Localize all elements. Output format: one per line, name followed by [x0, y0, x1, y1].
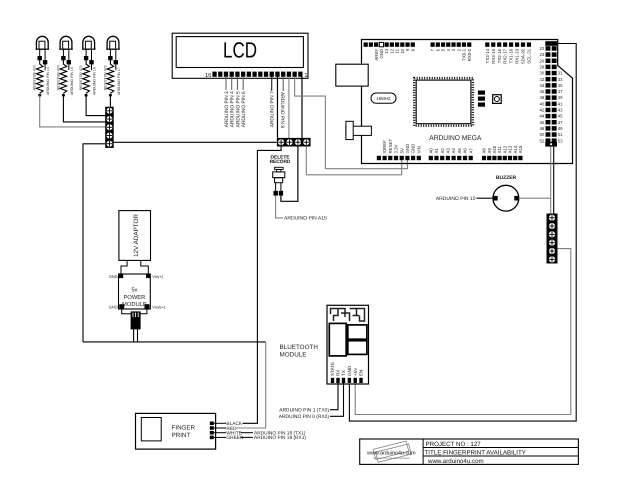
- LED D2: [59, 36, 73, 64]
- U1 bottom pin labels power group: [382, 139, 421, 154]
- svg-text:GND: GND: [347, 365, 352, 376]
- svg-text:49: 49: [558, 126, 563, 131]
- svg-text:MODULE: MODULE: [280, 352, 307, 359]
- wire bottom power rail: [83, 341, 266, 343]
- label BLUETOOTH MODULE: [280, 344, 319, 359]
- terminal block J3: [547, 214, 558, 264]
- U1 top pin header group 2 (7-2 TX0 RX0): [431, 42, 472, 46]
- svg-text:IOREF: IOREF: [382, 140, 387, 154]
- svg-text:3.3V: 3.3V: [394, 144, 399, 153]
- U1 top pin labels group 3: [485, 48, 532, 64]
- svg-text:ARDUINO PIN 15: ARDUINO PIN 15: [70, 67, 74, 95]
- svg-text:46: 46: [540, 120, 545, 125]
- svg-text:A7: A7: [468, 148, 473, 154]
- svg-text:ARDUINO PIN 14: ARDUINO PIN 14: [46, 67, 50, 95]
- wire J1 to J2: [114, 141, 277, 143]
- svg-text:STATE: STATE: [330, 362, 335, 376]
- LED D1: [36, 36, 50, 64]
- svg-text:ARDUINO PIN 4: ARDUINO PIN 4: [230, 91, 236, 127]
- svg-text:ARDUINO PIN 3: ARDUINO PIN 3: [224, 91, 230, 127]
- LED D4: [106, 36, 120, 64]
- wire LCD stub ARDUINO PIN 3: [224, 77, 230, 128]
- svg-text:Vin(+): Vin(+): [152, 274, 163, 279]
- svg-text:45: 45: [558, 114, 563, 119]
- svg-text:41: 41: [558, 101, 563, 106]
- svg-text:+5V: +5V: [353, 367, 358, 376]
- wire LCD pin2 to Arduino GND pin: [295, 77, 408, 169]
- node label ARDUINO PIN 17: [116, 64, 121, 95]
- wire LED D4 resistor to block J1: [109, 95, 111, 107]
- wire U1 header bottom to J3 (left): [550, 147, 552, 214]
- svg-text:BUZZER: BUZZER: [496, 175, 517, 181]
- svg-text:VIN: VIN: [416, 146, 421, 153]
- U3 component block 1: [348, 325, 367, 339]
- U1 right header odd pin numbers: [558, 71, 563, 144]
- svg-text:TX2-16: TX2-16: [497, 48, 502, 63]
- reset button of U1: [493, 95, 502, 104]
- svg-text:www.arduino4u.com: www.arduino4u.com: [427, 458, 484, 465]
- wire U1 header cap to right rail B: [349, 44, 576, 422]
- svg-text:22: 22: [540, 46, 545, 51]
- U1 right header even pin numbers: [540, 46, 545, 143]
- power jack of U1: [346, 121, 372, 139]
- svg-text:RESET: RESET: [388, 139, 393, 154]
- wire module BR pin to connector: [141, 309, 147, 314]
- svg-text:ARDUINO PIN 5: ARDUINO PIN 5: [235, 91, 241, 127]
- U1 right double header pins 22-53: [545, 41, 557, 146]
- svg-text:www.arduino4u.com: www.arduino4u.com: [366, 451, 416, 457]
- terminal block J1 (LED common): [105, 107, 114, 148]
- svg-text:ARDUINO PIN 0 (RX0): ARDUINO PIN 0 (RX0): [279, 414, 330, 420]
- svg-text:38: 38: [540, 95, 545, 100]
- svg-text:26: 26: [540, 58, 545, 63]
- svg-text:ARDUINO PIN 1 (TX0): ARDUINO PIN 1 (TX0): [279, 408, 329, 414]
- svg-text:SCL-21: SCL-21: [527, 48, 532, 63]
- svg-text:RX: RX: [336, 370, 341, 376]
- wire U4 RED: [214, 426, 237, 432]
- wire U4 WHITE stub ARDUINO PIN 18 (TX1): [214, 431, 306, 437]
- wire J1 to left power rail: [83, 144, 105, 342]
- svg-text:PROJECT NO : 127: PROJECT NO : 127: [426, 441, 482, 448]
- svg-text:GND: GND: [109, 304, 118, 309]
- U3 pin labels: [330, 362, 364, 376]
- svg-text:ARDUINO PIN 10: ARDUINO PIN 10: [436, 196, 476, 202]
- svg-text:Vout(+): Vout(+): [152, 304, 166, 309]
- svg-text:RESISTOR 470: RESISTOR 470: [56, 65, 60, 90]
- svg-text:+: +: [500, 197, 502, 201]
- wire U1 header bottom to J3 (right): [553, 147, 555, 214]
- U3 pins: [331, 378, 363, 383]
- svg-text:32: 32: [540, 77, 545, 82]
- U1 bottom pin header power group: [377, 156, 421, 160]
- svg-text:ARDUINO PIN 8: ARDUINO PIN 8: [279, 92, 285, 128]
- resistor R1 470: [36, 60, 43, 96]
- wire LED D3 resistor to block J1: [86, 95, 105, 115]
- LCD pin row 16..1: [212, 72, 302, 77]
- title block frame: [360, 439, 579, 464]
- resistor R2 470: [60, 60, 67, 96]
- wire U4 BLACK: [214, 421, 243, 427]
- wire J2 t1 to fingerprint BLACK: [243, 147, 282, 424]
- resistor R3 470: [83, 60, 90, 96]
- svg-text:36: 36: [540, 89, 545, 94]
- push button SW1 (delete record): [273, 167, 285, 195]
- svg-text:ARDUINO PIN 16: ARDUINO PIN 16: [93, 67, 97, 95]
- svg-text:RX0-0: RX0-0: [467, 48, 472, 61]
- svg-text:TX1-18: TX1-18: [509, 48, 514, 63]
- svg-text:48: 48: [540, 126, 545, 131]
- svg-text:39: 39: [558, 95, 563, 100]
- svg-text:A2: A2: [440, 148, 445, 154]
- node label ARDUINO PIN 15: [69, 64, 74, 95]
- svg-text:24: 24: [540, 52, 545, 57]
- wire LCD stub ARDUINO PIN 6: [241, 77, 247, 128]
- ICSP header of U1: [478, 91, 485, 107]
- svg-text:50: 50: [540, 132, 545, 137]
- U3 shield chip: [329, 323, 346, 356]
- svg-text:GND: GND: [405, 144, 410, 154]
- svg-text:ARDUINO MEGA: ARDUINO MEGA: [429, 135, 481, 142]
- node label ARDUINO PIN 14: [45, 64, 50, 95]
- svg-text:52: 52: [540, 138, 545, 143]
- svg-text:LCD: LCD: [223, 38, 257, 63]
- wire LED D1 resistor to block J1: [40, 95, 106, 127]
- USB connector of U1: [336, 64, 368, 86]
- svg-text:31: 31: [558, 71, 563, 76]
- wire ARDUINO PIN 10 to buzzer: [477, 197, 494, 199]
- svg-text:53: 53: [558, 138, 563, 143]
- svg-text:ARDUINO PIN 6: ARDUINO PIN 6: [241, 91, 247, 127]
- svg-text:TX3-14: TX3-14: [485, 48, 490, 63]
- 5V power module PS2: [119, 274, 151, 309]
- wire LCD stub ARDUINO PIN 5: [235, 77, 241, 128]
- svg-text:A1: A1: [434, 148, 439, 154]
- wire LCD pin1 to J2 t4: [301, 77, 303, 138]
- svg-text:30: 30: [540, 71, 545, 76]
- svg-text:POWER: POWER: [123, 294, 145, 301]
- svg-text:RESISTOR 470: RESISTOR 470: [79, 65, 83, 90]
- node label ARDUINO PIN 16: [92, 64, 97, 95]
- wire U3 RX stub ARDUINO PIN 1 (TX0): [279, 383, 338, 414]
- wire LCD pin3 to J2 t2: [288, 77, 290, 138]
- svg-text:35: 35: [558, 83, 563, 88]
- svg-text:44: 44: [540, 114, 545, 119]
- wire LCD pin5 to J2 t1: [276, 77, 278, 138]
- svg-text:A4: A4: [451, 148, 456, 154]
- svg-text:5V: 5V: [399, 148, 404, 153]
- svg-text:TX: TX: [341, 370, 346, 376]
- svg-text:47: 47: [558, 120, 563, 125]
- svg-text:RX2-17: RX2-17: [503, 48, 508, 63]
- svg-text:PRINT: PRINT: [172, 432, 191, 439]
- U1 top pin header group 1 (AREF GND 13-8): [364, 42, 415, 46]
- svg-text:16MHZ: 16MHZ: [376, 96, 391, 101]
- wire adaptor to power module (right): [141, 260, 149, 273]
- svg-text:RESISTOR 470: RESISTOR 470: [103, 65, 107, 90]
- svg-text:GND: GND: [411, 144, 416, 154]
- buzzer BZ1: [493, 185, 519, 211]
- U1 bottom pin header A0-A7: [429, 156, 473, 160]
- LCD module LCD1: [172, 33, 308, 78]
- U1 bottom pin header A8-A15: [482, 156, 523, 160]
- svg-text:EN: EN: [359, 370, 364, 376]
- title block logo www.arduino4u.com: [366, 441, 416, 462]
- U3 antenna trace: [331, 309, 365, 322]
- svg-text:42: 42: [540, 108, 545, 113]
- fingerprint module U4: [136, 413, 216, 449]
- svg-text:RESISTOR 470: RESISTOR 470: [33, 65, 37, 90]
- U1 bottom pin labels A8-A15: [482, 145, 523, 153]
- wire J3 to rail A to bluetooth +5V: [355, 249, 571, 415]
- svg-text:40: 40: [540, 101, 545, 106]
- svg-text:FINGER: FINGER: [172, 425, 196, 432]
- wire buzzer to header rail: [519, 197, 551, 199]
- svg-text:28: 28: [540, 64, 545, 69]
- wire SW1 left lead stub ARDUINO PIN A15: [276, 196, 327, 222]
- resistor R4 470: [107, 60, 114, 96]
- wire connector to rail (left): [133, 329, 135, 342]
- svg-text:RX1-19: RX1-19: [515, 48, 520, 63]
- svg-text:RECORD: RECORD: [270, 159, 291, 165]
- svg-text:A3: A3: [446, 148, 451, 154]
- svg-text:12V ADAPTOR: 12V ADAPTOR: [133, 214, 140, 257]
- wire LCD stub ARDUINO PIN 7 (pin 6): [270, 77, 276, 128]
- crystal 16MHZ: [371, 93, 396, 103]
- svg-text:GREEN: GREEN: [226, 435, 244, 441]
- wire adaptor to power module (left): [121, 260, 127, 273]
- wire LED D2 resistor to block J1: [63, 95, 105, 122]
- svg-text:33: 33: [558, 77, 563, 82]
- svg-text:TITLE:FINGERPRINT AVAILABILITY: TITLE:FINGERPRINT AVAILABILITY: [425, 450, 526, 457]
- svg-text:51: 51: [558, 132, 563, 137]
- wire U3 TX stub ARDUINO PIN 0 (RX0): [279, 383, 344, 420]
- svg-text:JOM BELAJAR ARDUINO BERSAMA: JOM BELAJAR ARDUINO BERSAMA: [373, 457, 410, 460]
- terminal block J2 (LCD power): [277, 138, 311, 147]
- wire J2 t4 to Arduino 5V pin: [306, 147, 401, 175]
- svg-text:ARDUINO PIN 17: ARDUINO PIN 17: [117, 67, 121, 95]
- svg-text:5v: 5v: [131, 287, 137, 293]
- U1 top pin labels group 2: [430, 48, 472, 61]
- svg-text:ARDUINO PIN 7: ARDUINO PIN 7: [270, 91, 276, 127]
- U1 top pin labels group 1: [374, 48, 416, 60]
- U3 component block 2: [348, 341, 367, 355]
- LED D3: [82, 36, 96, 64]
- svg-text:A15: A15: [518, 145, 523, 153]
- svg-text:16: 16: [205, 72, 212, 79]
- wire SW1 right lead to J2 t3: [281, 147, 298, 202]
- svg-text:SDA-20: SDA-20: [521, 48, 526, 64]
- svg-text:GND: GND: [109, 274, 118, 279]
- svg-text:A6: A6: [463, 148, 468, 154]
- svg-text:A0: A0: [428, 148, 433, 154]
- 12V adaptor PS1: [119, 211, 151, 261]
- bluetooth module U3: [327, 305, 369, 384]
- wire LCD stub ARDUINO PIN 8 (pin 4): [279, 77, 285, 129]
- wire connector to rail (right): [137, 329, 139, 342]
- output connector of power module: [131, 311, 141, 329]
- wire module BL pin to connector: [122, 309, 131, 314]
- wire U4 GREEN stub ARDUINO PIN 19 (RX1): [214, 435, 307, 441]
- svg-text:RX3-15: RX3-15: [491, 48, 496, 63]
- wire LCD stub ARDUINO PIN 4: [230, 77, 236, 128]
- U4 pins: [210, 422, 214, 440]
- svg-text:34: 34: [540, 83, 545, 88]
- svg-text:BLUETOOTH: BLUETOOTH: [280, 344, 319, 351]
- svg-text:43: 43: [558, 108, 563, 113]
- svg-text:ARDUINO PIN 19 (RX1): ARDUINO PIN 19 (RX1): [254, 435, 306, 441]
- svg-text:ARDUINO PIN A15: ARDUINO PIN A15: [284, 216, 327, 222]
- label DELETE RECORD: [270, 154, 291, 165]
- wire rail to fingerprint RED: [236, 342, 266, 428]
- microcontroller chip of U1: [414, 78, 473, 126]
- svg-text:37: 37: [558, 89, 563, 94]
- svg-text:A5: A5: [457, 148, 462, 154]
- svg-text:MODULE: MODULE: [122, 301, 147, 308]
- U1 top pin header group 3 (serial/I2C): [485, 42, 531, 46]
- Arduino Mega board U1 outline: [362, 40, 573, 164]
- U1 bottom pin labels A0-A7: [428, 148, 473, 154]
